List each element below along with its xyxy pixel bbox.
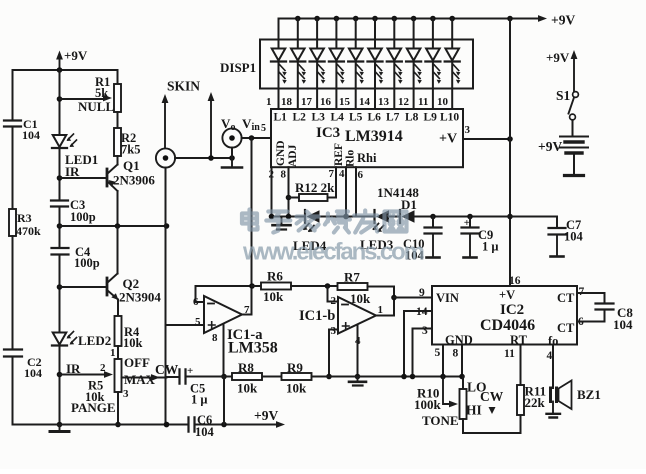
label Q2 [123,276,140,291]
ground diode chain [273,217,291,230]
svg-text:7k5: 7k5 [121,143,140,157]
svg-text:BZ1: BZ1 [577,387,601,402]
wire IC1-b noninverting [329,330,338,377]
wire C8 bottom [577,310,605,322]
svg-text:5: 5 [195,316,201,328]
ground C9 [464,234,477,258]
wire +V IC3 to rail [463,138,510,140]
wire C1 to R3 [12,127,14,210]
capacitor C7 [549,228,566,235]
label C3 [70,198,85,212]
label R6 [267,269,283,284]
svg-text:1 μ: 1 μ [191,393,207,407]
pin label REF IC3 [333,143,345,166]
label IR R5 [66,361,81,376]
wire R12 left [289,197,300,199]
pin label L2 IC3 [293,112,307,124]
svg-text:V: V [221,116,231,131]
pin label CT top IC2 [557,291,575,305]
pin 14 IC3 top [359,96,371,108]
label C9 [478,228,493,242]
capacitor C9 [462,228,479,234]
junction output R6 [249,283,255,289]
label LED2 [78,333,111,348]
value 5k R1 [95,86,108,100]
svg-text:RT: RT [510,333,528,347]
resistor R6 [261,283,291,290]
svg-text:100p: 100p [70,210,96,224]
label R11 [525,384,547,399]
svg-text:Q1: Q1 [123,158,140,173]
pin 16 IC3 top [320,96,332,108]
LED4 [303,210,320,232]
svg-text:+9V: +9V [546,50,570,65]
svg-text:104: 104 [195,425,215,439]
junction pin5 rail [440,374,446,380]
wire DISP1 LED3 cathode to IC3 pin 17 [316,62,318,110]
capacitor C1 [4,121,21,127]
svg-text:PANGE: PANGE [71,400,116,415]
wire DISP1 LED10 cathode to IC3 pin 10 [451,62,453,110]
svg-text:R3: R3 [17,211,32,225]
wire CW node [167,376,180,378]
wire C7 top [556,217,558,228]
svg-text:IR: IR [65,164,80,179]
wire DISP1 LED6 anode [374,19,376,49]
label R7 [344,270,360,285]
LED1 [52,134,77,148]
svg-text:3: 3 [331,325,337,337]
pin 8 IC1-a [212,332,218,344]
wire Q1 base [60,177,108,179]
pin label L5 IC3 [349,112,363,124]
pin label RT IC2 [510,333,528,347]
wire IC3 pin 6 [355,167,357,216]
wire DISP1 LED9 cathode to IC3 pin 11 [432,62,434,110]
svg-text:17: 17 [301,96,313,108]
junction pin3 rail [326,374,332,380]
svg-text:GND: GND [275,140,287,166]
svg-text:CT: CT [557,321,575,335]
svg-text:L7: L7 [386,112,400,124]
wire Q2 collector up [117,226,119,274]
polarity + C5 [187,365,193,377]
label +9V top left [64,48,88,63]
LED2 [52,332,77,346]
pin label fo IC2 [548,334,558,348]
label C10 [403,237,425,251]
junction bus right rail [507,16,513,22]
wire top left rail [13,69,118,71]
svg-text:104: 104 [24,366,42,380]
junction under Vo [229,155,235,161]
op IC3 box [271,109,463,167]
label LM358 [228,340,278,357]
LED DISP1-6 [368,49,384,84]
svg-text:100p: 100p [74,256,100,270]
LED DISP1-5 [348,49,364,84]
wire IC2 pin 8 [461,345,463,377]
label IC1-a [227,327,263,343]
wire R10 top [462,377,464,390]
junction bus-LED5 [353,16,359,22]
value 10k R8 [237,381,258,396]
resistor R2 [114,128,121,156]
junction rail LED column [57,67,63,73]
label R4 [124,325,140,339]
svg-text:L8: L8 [405,112,419,124]
label Vin sub [252,122,261,133]
value 10k R5 [85,390,105,404]
pin 9 IC2 [419,287,425,299]
junction electrode 2 [208,155,214,161]
wire IC1-a pin 8 down [223,324,225,377]
junction +V rail [507,136,513,142]
pin label L3 IC3 [312,112,326,124]
resistor R11 [517,385,524,415]
wire S1 to battery [572,120,574,135]
wire R3 to C2 [12,236,14,349]
pin label ADJ IC3 [287,144,299,167]
svg-text:IR: IR [66,361,81,376]
label R10 [417,386,439,401]
wire IC3 pin 8 [288,167,290,216]
pin 4 IC2 [547,350,553,362]
electrode arrow 2 [208,92,215,158]
ground C7 [551,235,564,257]
value 104 C10 [405,249,425,263]
pin label L1 IC3 [274,112,288,124]
value 100k R10 [414,397,442,412]
svg-text:HI: HI [466,403,482,418]
wire IC3 pin 4 [345,167,347,216]
pin 18 IC3 top [281,96,293,108]
wire IC1-a noninverting [167,324,205,326]
pin 1 IC1-b [378,304,384,316]
svg-text:8: 8 [281,169,287,181]
pin 5 IC1-a [195,316,201,328]
wire R7 right [368,287,395,298]
wire R11 to pin 11 [520,345,522,386]
wire DISP1 LED10 anode [451,19,453,49]
wire DISP1 LED3 anode [316,19,318,49]
polarity + C9 [464,217,470,229]
label R5 [88,379,103,393]
svg-text:CW: CW [155,362,179,377]
ground main [50,425,69,432]
svg-text:GND: GND [445,333,473,347]
svg-text:IC3: IC3 [316,125,340,141]
wire R10 wiper [443,377,458,408]
resistor R7 [338,283,368,290]
svg-text:in: in [252,122,261,133]
label LM3914 [345,128,403,145]
svg-text:15: 15 [339,96,351,108]
wire rail to NULL node [59,70,61,134]
wire DISP1 LED7 anode [393,19,395,49]
transistor Q2 [107,274,119,301]
label LED4 [293,238,327,253]
label OFF [124,355,150,370]
svg-text:S1: S1 [556,88,571,103]
wire DISP1 LED8 cathode to IC3 pin 12 [413,62,415,110]
LED3 [373,210,390,232]
wire DISP1 LED7 cathode to IC3 pin 13 [393,62,395,110]
wire mid node line [60,225,167,227]
svg-text:3: 3 [465,124,471,136]
pin label GND IC2 [445,333,473,347]
wire DISP1 LED8 anode [413,19,415,49]
potentiometer R5 [115,359,122,392]
junction mid line left [57,223,63,229]
wire DISP1 LED2 cathode to IC3 pin 18 [297,62,299,110]
junction bus-LED10 [449,16,455,22]
label IR LED1 [65,164,80,179]
wire to IC2 VIN [394,297,432,299]
svg-text:+9V: +9V [551,13,575,28]
label LED3 [360,237,394,252]
wire battery to ground [573,155,575,175]
potentiometer R1 [114,84,121,112]
label IC1-b [299,308,335,324]
pin 4 IC3 [339,168,345,180]
value 10k R6 [263,289,284,304]
pin 1 IC3 top [266,96,272,108]
svg-text:104: 104 [613,317,633,332]
label +V IC2 [499,288,515,302]
label C5 [190,382,205,396]
pin 4 IC1-b [355,335,361,347]
wire LED1 to Q1 base node [59,149,61,200]
svg-text:TONE: TONE [422,413,459,428]
svg-text:www.elecfans.com: www.elecfans.com [242,239,425,266]
svg-text:+9V: +9V [64,48,88,63]
svg-text:1: 1 [110,347,116,359]
wire +9V right rail [509,19,511,287]
capacitor C5 [180,369,186,383]
wire IC1-a inverting feedback [196,286,253,302]
wire C3 to mid line [59,207,61,248]
buzzer BZ1 [551,381,572,410]
label +9V S1 [546,50,570,65]
svg-text:REF: REF [333,143,345,166]
value 100p C4 [74,256,100,270]
label R12 2k [295,180,335,195]
label D1 [401,197,417,212]
pin label VIN IC2 [436,291,459,305]
+9V arrow top right [538,15,547,22]
svg-text:VIN: VIN [436,291,459,305]
svg-text:10k: 10k [123,336,143,350]
svg-text:Rlo: Rlo [345,150,357,168]
svg-text:V: V [242,116,252,131]
ground IC1-b [349,377,366,386]
junction pin8 chain [286,214,292,220]
junction V+ drop rail [221,422,227,428]
pin 7 IC2 [579,286,585,298]
label C4 [75,245,91,259]
pin 3 IC1-b [331,325,337,337]
svg-text:CD4046: CD4046 [480,317,535,334]
junction Vin node [249,135,255,141]
label IC3 [316,125,340,141]
ground probe [222,158,242,168]
wire DISP1 LED6 cathode to IC3 pin 14 [374,62,376,110]
junction NULL [57,96,63,102]
junction C9 [467,214,473,220]
junction Q column mid [115,223,121,229]
junction Q1 base [57,175,63,181]
wire IC3 pin 2 [271,167,273,216]
svg-text:L10: L10 [440,112,459,124]
label C1 [23,117,38,131]
wire Q2 emitter to R4 [117,300,119,317]
label Vin [242,116,252,131]
junction bottom rail R5 [115,422,121,428]
wire DISP1 LED4 anode [335,19,337,49]
label Vo sub [231,122,236,133]
svg-text:3: 3 [422,325,428,337]
junction rail diode line [507,214,513,220]
svg-text:8: 8 [212,332,218,344]
svg-text:o: o [231,122,236,133]
pin 6 IC2 [578,316,584,328]
svg-text:5: 5 [435,347,441,359]
value 10k R7 [350,291,371,306]
pin 3 IC3 [465,124,471,136]
svg-text:LED2: LED2 [78,333,111,348]
wire diode chain left [272,216,306,218]
pin 2 IC1-b [331,295,337,307]
svg-text:10k: 10k [263,289,284,304]
resistor R4 [115,316,122,346]
+9V arrow S1 [571,50,578,92]
LED display DISP1 box [260,40,473,89]
svg-text:4: 4 [547,350,553,362]
svg-text:470k: 470k [16,224,41,238]
wire IC1-a output [242,286,252,315]
capacitor C4 [52,248,69,255]
wire DISP1 LED5 anode [355,19,357,49]
label TONE [422,413,459,428]
wire IR wiper arrow [60,371,114,378]
junction bus-LED9 [430,16,436,22]
svg-text:NULL: NULL [78,99,114,114]
junction bus-LED3 [314,16,320,22]
watermark text row 2 [242,239,425,266]
marker CW down arrow [489,407,496,414]
wire NULL wiper arrow [60,95,113,102]
label +9V top right [551,13,575,28]
svg-text:104: 104 [564,230,584,244]
svg-text:LM3914: LM3914 [345,128,403,145]
wire bottom rail left [52,424,189,426]
wire IC1-b inverting [328,286,339,302]
label R2 [121,131,136,145]
svg-text:100k: 100k [414,397,442,412]
svg-text:L9: L9 [424,112,438,124]
pin 2 R5 [100,362,106,374]
svg-text:10k: 10k [286,381,307,396]
svg-text:L4: L4 [331,112,345,124]
svg-text:+V: +V [499,288,515,302]
wire V+ drop [223,377,225,425]
value 10k R4 [123,336,143,350]
value 1u C5 [191,393,207,407]
svg-text:ADJ: ADJ [287,144,299,167]
wire left column top [12,70,14,120]
svg-text:DISP1: DISP1 [220,60,256,75]
capacitor C6 [189,417,195,431]
value 7k5 R2 [121,143,140,157]
wire Q1 emitter down [117,191,119,226]
label HI [466,403,482,418]
svg-text:+: + [187,365,193,377]
+9V arrow top left [56,51,63,71]
label CD4046 [480,317,535,334]
wire Vo to probe line [231,148,233,158]
svg-text:11: 11 [418,96,428,108]
value 22k R11 [525,395,546,410]
wire bottom rail +9V arrow [195,421,286,428]
svg-text:104: 104 [22,128,40,142]
pin 8 IC2 [453,348,459,360]
junction output VIN [391,295,397,301]
wire pin6 node to LED3 [356,216,375,218]
svg-text:3: 3 [123,388,129,400]
wire D1 to rail [414,216,557,218]
pin label Rhi IC3 [357,151,377,165]
resistor R12 [299,194,328,201]
wire LED3 to D1 [389,216,400,218]
wire R10 bottom to R11 [463,415,521,433]
electrode arrow 1 [162,94,169,148]
junction bus-LED6 [372,16,378,22]
pin 6 IC3 [358,169,364,181]
junction CW rail [164,422,170,428]
wire DISP1 LED5 cathode to IC3 pin 15 [355,62,357,110]
wire rail to pin3 node [412,329,414,377]
svg-text:18: 18 [281,96,293,108]
wire LED4 to pin4 node [320,216,357,218]
potentiometer R10 [460,389,467,419]
pin 5 IC2 [435,347,441,359]
wire IC1-b output [376,287,394,316]
wire R9 to ground rail [312,376,463,378]
svg-text:6: 6 [358,169,364,181]
label C8 [617,305,633,320]
wire R4 to R5 [117,346,119,359]
label LO [467,380,487,395]
label C7 [566,218,581,232]
value 104 C1 [22,128,40,142]
svg-text:1: 1 [378,304,384,316]
pin 15 IC3 top [339,96,351,108]
wire DISP1 LED4 cathode to IC3 pin 16 [335,62,337,110]
wire IC1-b pin 4 [357,325,359,377]
wire pin14 stub [404,310,432,312]
watermark text row 1 [242,210,407,233]
label Vo [221,116,231,131]
battery +9V [560,137,588,154]
pin 11 IC2 [504,348,515,360]
label S1 [556,88,571,103]
LED DISP1-3 [310,49,326,84]
resistor R8 [232,373,262,380]
LED DISP1-4 [329,49,345,84]
op-amp IC1-a [204,296,242,333]
label R1 [95,75,110,89]
